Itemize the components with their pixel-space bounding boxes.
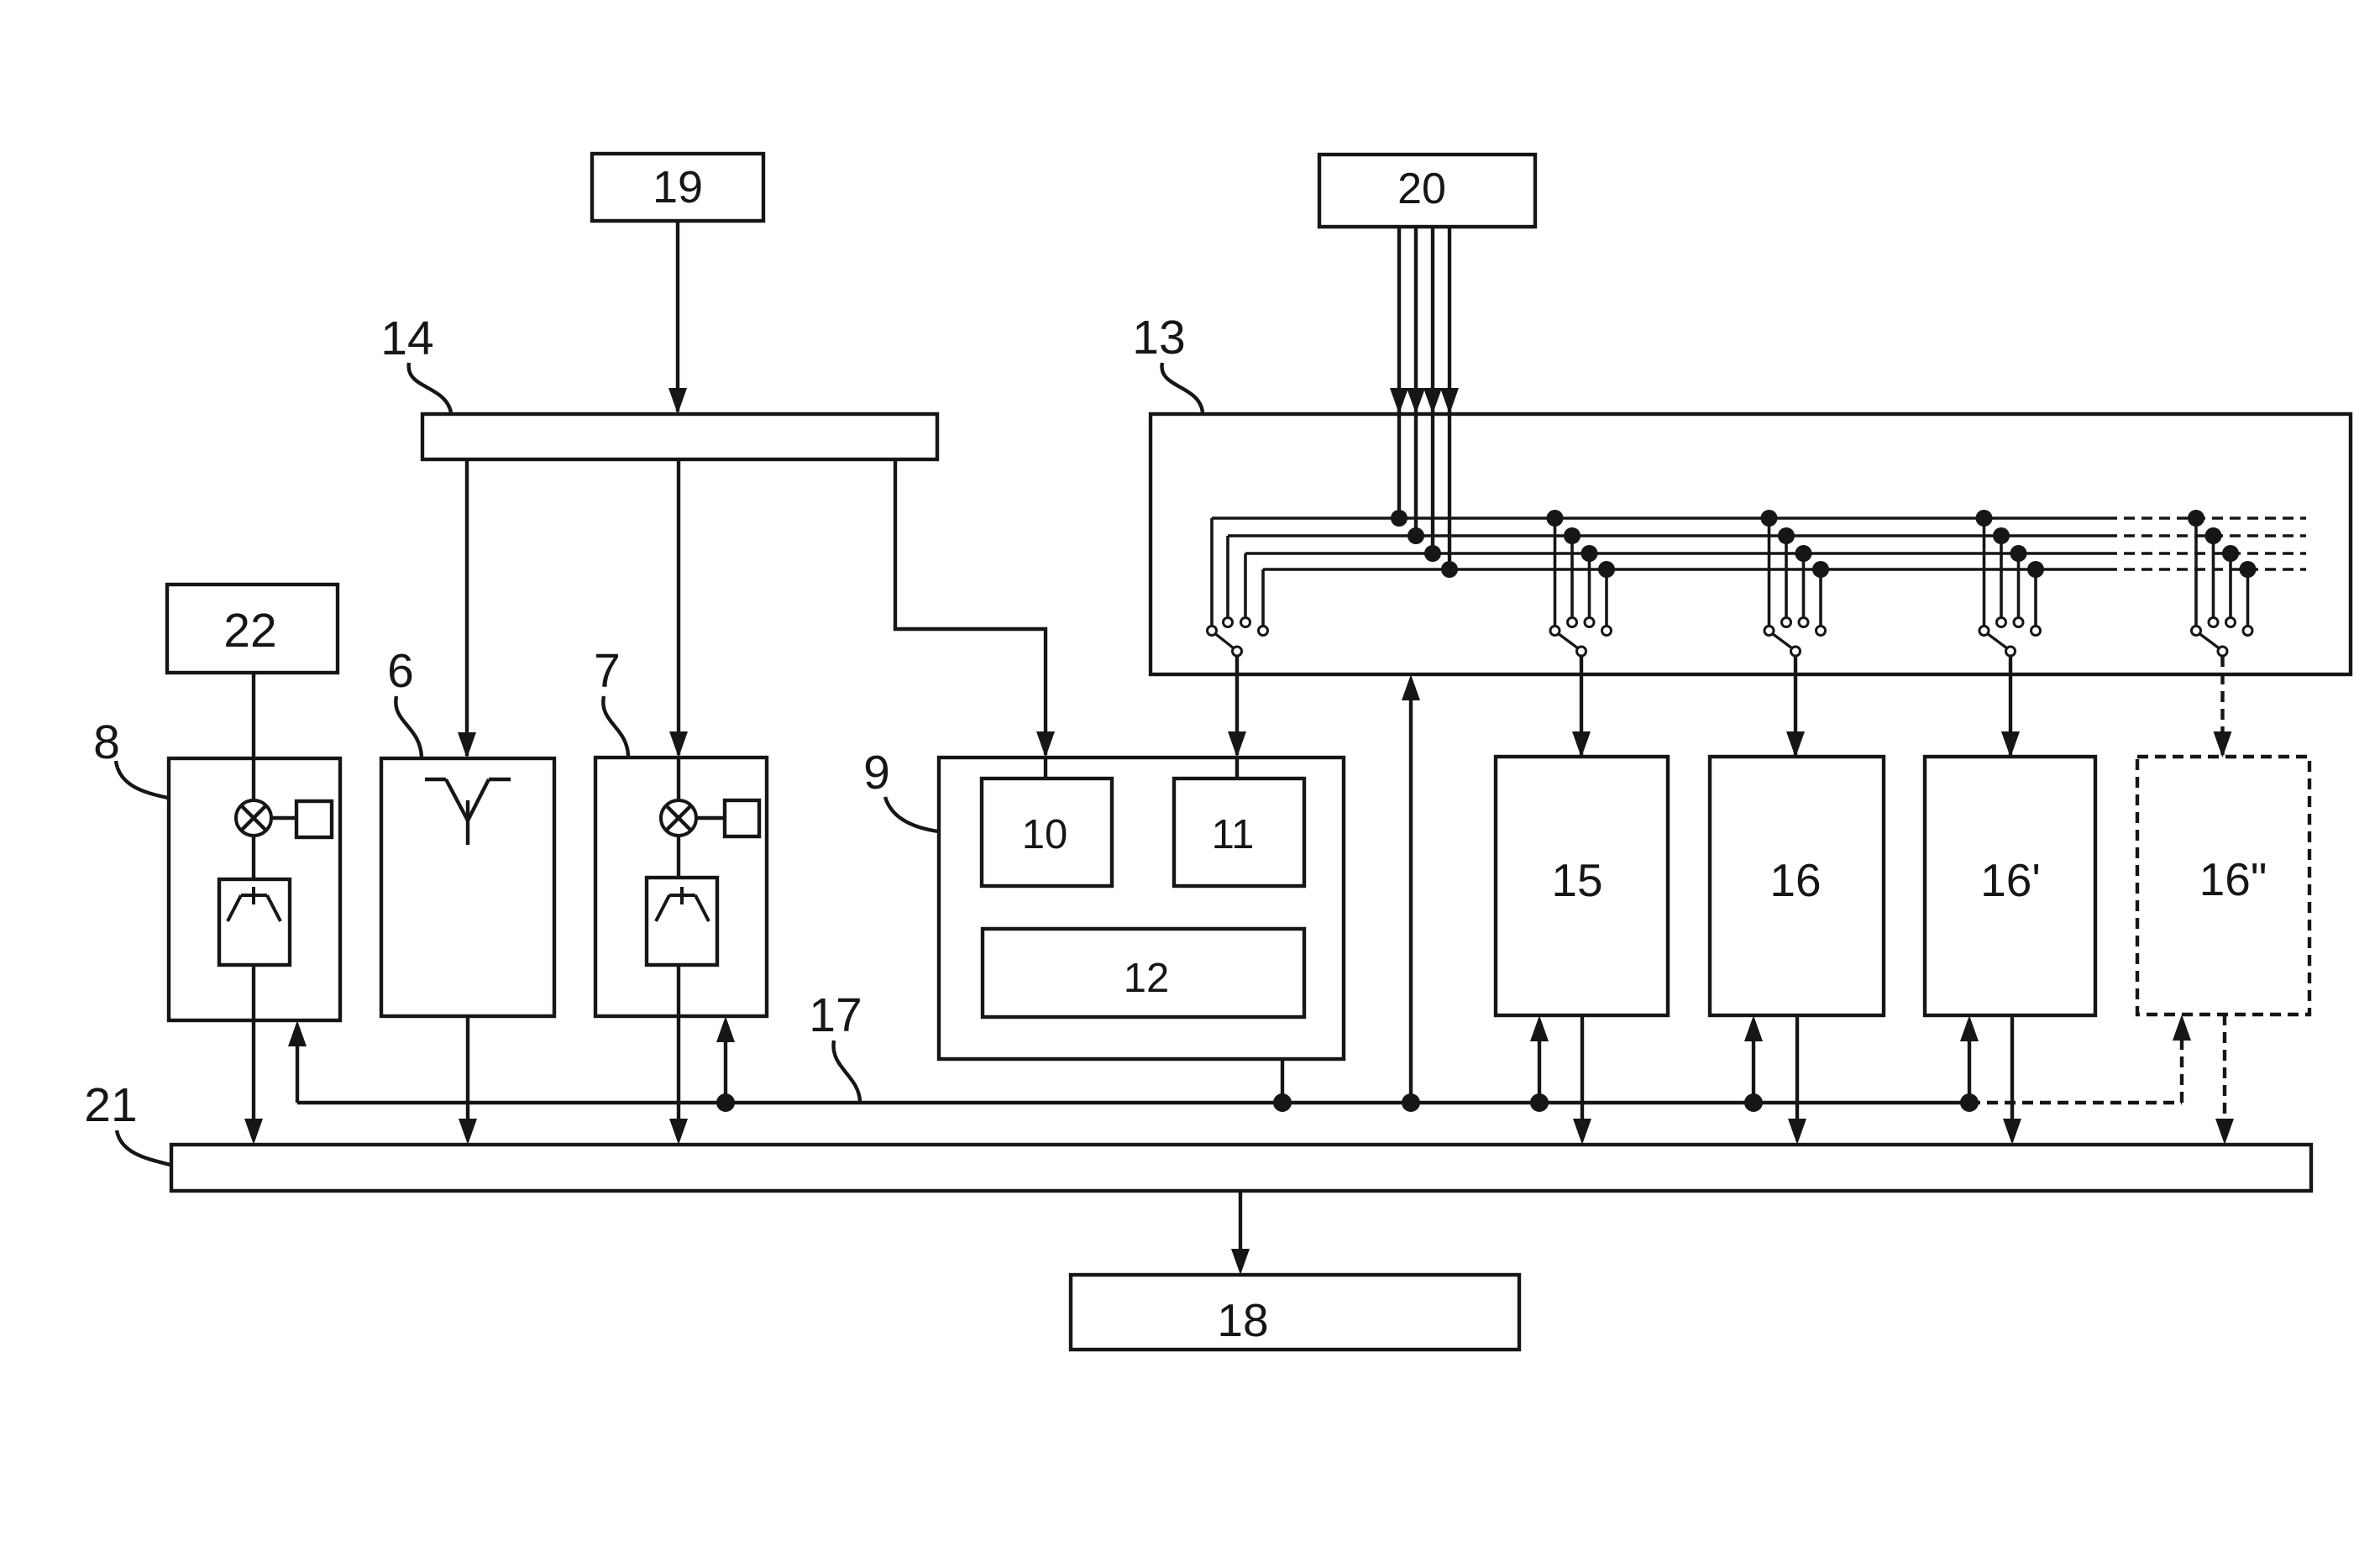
- svg-text:10: 10: [1022, 812, 1068, 857]
- tap 4 junction dot 3: [2010, 545, 2027, 562]
- svg-text:19: 19: [653, 162, 703, 212]
- tap 2 stub wire 3: [1588, 553, 1591, 618]
- wire bus 14 to block 9: [895, 459, 1046, 755]
- wire 22 input inside block 8: [252, 758, 255, 800]
- tap 1 common ring: [1233, 647, 1242, 656]
- tap 2 contact ring 2: [1568, 618, 1577, 627]
- tap 5 output wire: [2220, 656, 2224, 755]
- oscillator square in block 7: [725, 800, 759, 836]
- wire bus 17 up to block 16: [1752, 1041, 1755, 1103]
- junction dot bus 17 block 7: [716, 1093, 735, 1112]
- tap 4 output wire: [2009, 656, 2012, 755]
- block 20: [1319, 155, 1535, 227]
- block 16: [1710, 757, 1884, 1015]
- arrowhead block 16doubleprime into bar 21: [2215, 1119, 2234, 1145]
- block 16prime: [1925, 757, 2095, 1015]
- junction dot bus 17 block 16: [1744, 1093, 1763, 1112]
- wire block 7 to bar 21: [677, 1016, 680, 1119]
- tap 2 contact ring 4: [1602, 626, 1612, 636]
- tap 2 output wire: [1580, 656, 1583, 755]
- tap 4 junction dot 2: [1993, 527, 2010, 544]
- bus 14 bar: [422, 414, 937, 459]
- wire bus 17 up to block 16doubleprime: [2180, 1041, 2183, 1103]
- junction dot bus 17 block 15: [1530, 1093, 1549, 1112]
- leader line label 8: [116, 761, 168, 798]
- wire mixer to filter in block 7: [677, 836, 680, 878]
- leader line label 6: [396, 696, 422, 757]
- tap 5 contact ring 2: [2209, 618, 2218, 627]
- matrix bus row 3 dashed: [2106, 552, 2306, 555]
- junction dot bus 17 block 16prime: [1960, 1093, 1979, 1112]
- tap 2 stub wire 1: [1554, 518, 1557, 626]
- wire 22 to block 8: [252, 673, 255, 758]
- arrowhead bus 17 into block 16prime: [1960, 1015, 1979, 1041]
- tap 2 junction dot 2: [1564, 527, 1581, 544]
- tap 1 switch arm: [1215, 634, 1234, 649]
- tap 3 stub wire 4: [1819, 569, 1822, 626]
- tap 2 contact ring 3: [1585, 618, 1594, 627]
- matrix bus row 2 solid: [1228, 534, 2106, 537]
- arrowhead block 16prime into bar 21: [2003, 1119, 2021, 1145]
- arrowhead tap 3 output: [1786, 731, 1805, 758]
- tap 2 junction dot 1: [1547, 510, 1564, 527]
- antenna symbol in block 6: [425, 778, 446, 781]
- svg-text:14: 14: [380, 312, 433, 365]
- svg-text:7: 7: [594, 644, 621, 698]
- mixer circle in block 8: [236, 800, 271, 836]
- bus 17 dashed wire: [1969, 1101, 2182, 1104]
- tap 3 junction dot 3: [1795, 545, 1812, 562]
- wire block 16prime to bar 21: [2010, 1015, 2014, 1119]
- svg-text:17: 17: [809, 988, 862, 1042]
- tap 4 contact ring 4: [2031, 626, 2041, 636]
- svg-text:12: 12: [1124, 956, 1170, 1001]
- filter symbol in block 8: [241, 894, 267, 897]
- wire block 9 to bus 17: [1281, 1059, 1284, 1103]
- wire block 16 to bar 21: [1795, 1015, 1799, 1119]
- svg-text:16: 16: [1769, 854, 1821, 906]
- filter box in block 7: [647, 878, 717, 965]
- arrowhead block 16 into bar 21: [1788, 1119, 1806, 1145]
- arrowhead into block 6: [458, 732, 476, 758]
- wire 19 to bus 14: [676, 221, 679, 412]
- wire mixer to oscillator in block 7: [696, 816, 725, 820]
- wire block 16doubleprime to bar 21: [2223, 1014, 2226, 1119]
- tap 1 bend wire row 3: [1244, 553, 1247, 618]
- arrowhead control line 4 into matrix 13: [1440, 388, 1459, 414]
- wire bus 17 up to block 7: [724, 1042, 727, 1103]
- leader line label 9: [885, 797, 938, 831]
- junction dot control line 1 on bus row 1: [1391, 510, 1408, 527]
- bar 21: [171, 1145, 2311, 1191]
- tap 4 stub wire 2: [2000, 536, 2003, 618]
- tap 5 junction dot 3: [2222, 545, 2239, 562]
- svg-text:16': 16': [1980, 854, 2041, 906]
- arrowhead into block 9: [1036, 731, 1055, 758]
- tap 1 contact ring 4: [1259, 626, 1268, 636]
- wire bar 21 to block 18: [1239, 1191, 1242, 1249]
- wire filter to block 8 bottom: [252, 965, 255, 1020]
- junction dot control line 4 on bus row 4: [1441, 561, 1458, 578]
- svg-text:11: 11: [1212, 812, 1255, 857]
- arrowhead block 6 into bar 21: [459, 1119, 477, 1145]
- leader line label 17: [833, 1041, 860, 1101]
- filter box in block 8: [219, 879, 290, 965]
- arrowhead bus 17 into block 16: [1744, 1015, 1763, 1041]
- arrowhead block 7 into bar 21: [669, 1119, 688, 1145]
- tap 3 stub wire 3: [1802, 553, 1806, 618]
- tap 3 junction dot 2: [1778, 527, 1795, 544]
- tap 3 stub wire 2: [1785, 536, 1788, 618]
- tap 1 contact ring 2: [1224, 618, 1233, 627]
- junction dot bus 17 matrix 13: [1402, 1093, 1420, 1112]
- tap 2 common ring: [1577, 647, 1586, 656]
- wire block 9 top edge to block 10: [1044, 758, 1047, 778]
- matrix bus row 1 solid: [1212, 516, 2106, 520]
- mixer circle in block 7: [661, 800, 696, 836]
- wire bus 17 up to block 8: [296, 1045, 299, 1103]
- block 7: [595, 758, 767, 1016]
- tap 4 common ring: [2006, 647, 2016, 656]
- arrowhead block 8 into bar 21: [244, 1119, 263, 1145]
- wire bus 17 up to block 16prime: [1968, 1041, 1971, 1103]
- matrix bus row 4 dashed: [2106, 568, 2306, 571]
- svg-text:13: 13: [1132, 311, 1185, 364]
- tap 5 junction dot 1: [2188, 510, 2204, 527]
- tap 4 stub wire 4: [2034, 569, 2037, 626]
- arrowhead bus 17 into block 16doubleprime: [2173, 1014, 2191, 1041]
- svg-text:15: 15: [1551, 854, 1602, 906]
- junction dot bus 17 block 9: [1273, 1093, 1292, 1112]
- tap 5 stub wire 3: [2229, 553, 2232, 618]
- wire block 15 to bar 21: [1581, 1015, 1584, 1119]
- block 6: [381, 758, 554, 1016]
- arrowhead bus 17 into block 7: [716, 1016, 735, 1042]
- tap 3 switch arm: [1773, 634, 1793, 649]
- tap 1 contact ring 1: [1208, 626, 1217, 636]
- wire bus 14 to block 7: [677, 459, 680, 755]
- tap 2 stub wire 2: [1570, 536, 1574, 618]
- matrix bus row 2 dashed: [2106, 534, 2306, 537]
- block 18: [1071, 1275, 1519, 1350]
- tap 4 contact ring 2: [1997, 618, 2006, 627]
- tap 3 contact ring 3: [1799, 618, 1808, 627]
- tap 2 junction dot 4: [1598, 561, 1615, 578]
- tap 1 bend wire row 2: [1226, 536, 1229, 618]
- block 9: [939, 758, 1344, 1059]
- arrowhead control line 3 into matrix 13: [1423, 388, 1442, 414]
- svg-text:6: 6: [387, 644, 414, 698]
- tap 5 junction dot 2: [2205, 527, 2222, 544]
- svg-text:16": 16": [2199, 853, 2267, 905]
- filter symbol in block 7: [669, 894, 695, 897]
- svg-text:20: 20: [1397, 165, 1446, 213]
- wire filter to block 7 bottom: [677, 965, 680, 1016]
- tap 4 junction dot 1: [1976, 510, 1993, 527]
- leader line label 21: [117, 1130, 170, 1165]
- tap 4 stub wire 1: [1983, 518, 1986, 626]
- tap 2 stub wire 4: [1605, 569, 1608, 626]
- svg-text:22: 22: [223, 604, 276, 658]
- junction dot control line 2 on bus row 2: [1408, 527, 1424, 544]
- tap 4 stub wire 3: [2017, 553, 2021, 618]
- svg-text:21: 21: [84, 1078, 137, 1132]
- matrix bus row 4 solid: [1263, 568, 2106, 571]
- junction dot control line 3 on bus row 3: [1424, 545, 1441, 562]
- tap 3 contact ring 2: [1782, 618, 1791, 627]
- wire 20 control line 3: [1431, 227, 1434, 553]
- matrix bus row 3 solid: [1245, 552, 2106, 555]
- wire bus 17 up to block 15: [1538, 1041, 1541, 1103]
- arrowhead tap 2 output: [1572, 731, 1591, 758]
- arrowhead block 15 into bar 21: [1573, 1119, 1591, 1145]
- bus 17 solid wire: [297, 1101, 1969, 1104]
- tap 5 common ring: [2218, 647, 2227, 656]
- tap 1 output wire: [1235, 656, 1239, 755]
- oscillator square in block 8: [296, 801, 332, 837]
- block 22: [167, 585, 338, 673]
- block 16doubleprime: [2137, 757, 2309, 1014]
- tap 2 junction dot 3: [1581, 545, 1598, 562]
- wire block 6 to bar 21: [466, 1016, 469, 1119]
- block 19: [592, 154, 763, 221]
- leader line label 14: [409, 363, 451, 412]
- block 15: [1496, 757, 1668, 1015]
- block 10: [982, 778, 1112, 886]
- tap 2 switch arm: [1559, 634, 1579, 649]
- svg-text:9: 9: [863, 746, 890, 799]
- tap 1 bend wire row 1: [1210, 518, 1214, 626]
- tap 5 contact ring 1: [2192, 626, 2201, 636]
- svg-text:18: 18: [1217, 1294, 1268, 1346]
- arrowhead into block 18: [1231, 1249, 1250, 1275]
- tap 5 stub wire 4: [2246, 569, 2250, 626]
- wire 20 control line 1: [1397, 227, 1401, 518]
- block 11: [1174, 778, 1304, 886]
- tap 5 junction dot 4: [2240, 561, 2257, 578]
- tap 5 stub wire 2: [2212, 536, 2215, 618]
- matrix 13 enclosure: [1151, 414, 2351, 674]
- wire block 8 to bar 21: [252, 1020, 255, 1119]
- wire input inside block 7: [677, 758, 680, 800]
- arrowhead 19 into bus 14: [668, 388, 687, 414]
- tap 4 junction dot 4: [2027, 561, 2044, 578]
- wire 20 control line 4: [1448, 227, 1451, 569]
- wire block 9 top edge to block 11: [1235, 758, 1239, 778]
- arrowhead into block 7: [669, 731, 688, 758]
- tap 3 contact ring 1: [1764, 626, 1774, 636]
- tap 3 junction dot 1: [1761, 510, 1778, 527]
- arrowhead bus 17 into matrix 13: [1402, 674, 1420, 700]
- leader line label 13: [1162, 363, 1203, 412]
- tap 1 contact ring 3: [1241, 618, 1250, 627]
- tap 3 output wire: [1794, 656, 1797, 755]
- arrowhead bus 17 into block 8: [288, 1020, 307, 1046]
- matrix bus row 1 dashed: [2106, 516, 2306, 520]
- arrowhead tap 5 output: [2214, 731, 2232, 758]
- block 12: [983, 929, 1304, 1017]
- tap 4 switch arm: [1988, 634, 2008, 649]
- arrowhead control line 2 into matrix 13: [1407, 388, 1425, 414]
- tap 2 contact ring 1: [1550, 626, 1560, 636]
- wire bus 17 up to matrix 13: [1409, 700, 1413, 1103]
- wire bus 14 to block 6: [465, 459, 469, 756]
- tap 3 contact ring 4: [1816, 626, 1826, 636]
- leader line label 7: [603, 696, 628, 756]
- wire mixer to filter in block 8: [252, 836, 255, 879]
- tap 3 junction dot 4: [1812, 561, 1829, 578]
- tap 3 common ring: [1791, 647, 1801, 656]
- tap 4 contact ring 3: [2014, 618, 2023, 627]
- arrowhead tap 4 output: [2001, 731, 2020, 758]
- tap 5 contact ring 4: [2243, 626, 2252, 636]
- wire 20 control line 2: [1414, 227, 1418, 536]
- wire mixer to oscillator in block 8: [271, 816, 296, 820]
- arrowhead control line 1 into matrix 13: [1390, 388, 1408, 414]
- tap 1 bend wire row 4: [1261, 569, 1265, 626]
- arrowhead tap 1 into block 11: [1228, 731, 1246, 758]
- tap 5 contact ring 3: [2226, 618, 2236, 627]
- arrowhead bus 17 into block 15: [1530, 1015, 1549, 1041]
- tap 3 stub wire 1: [1768, 518, 1771, 626]
- tap 5 switch arm: [2199, 634, 2220, 649]
- tap 5 stub wire 1: [2194, 518, 2198, 626]
- tap 4 contact ring 1: [1979, 626, 1989, 636]
- block 8: [169, 758, 340, 1020]
